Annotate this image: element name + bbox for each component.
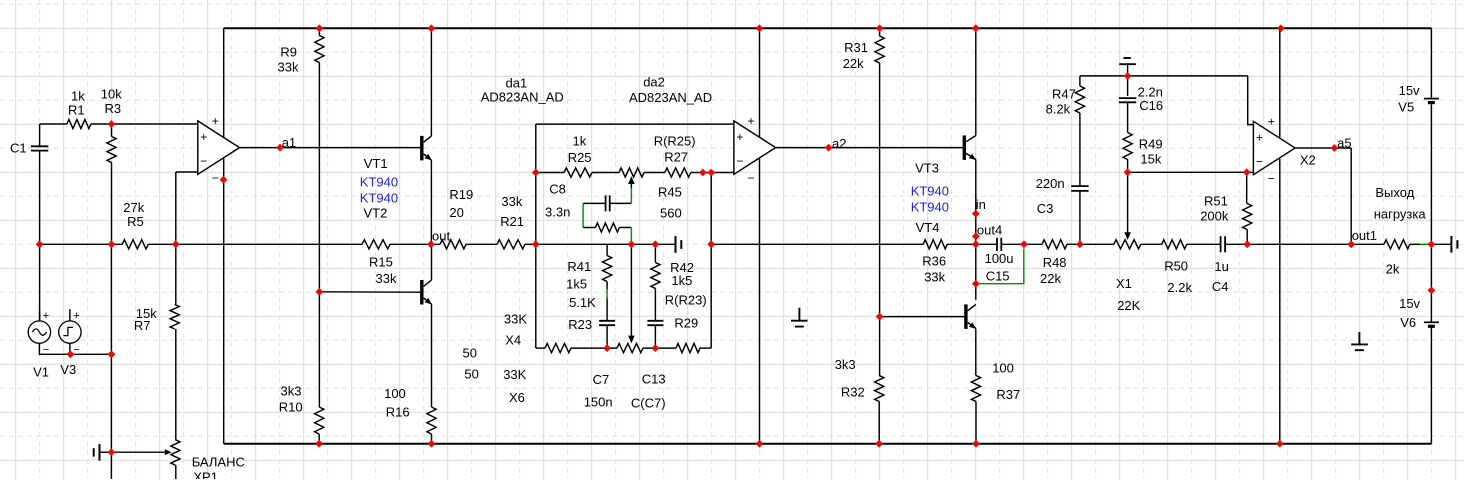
wire C15 node to R48	[1024, 243, 1042, 245]
junction top bus / DA2 supply	[756, 24, 764, 32]
wire R48 to R47 column node	[1067, 243, 1080, 245]
wire V5 to mid bus node	[1430, 104, 1432, 244]
svg-text:15k: 15k	[1140, 152, 1161, 167]
svg-text:R16: R16	[386, 404, 410, 419]
junction bottom bus / R37	[972, 440, 980, 448]
wire mid node to R42	[654, 244, 656, 262]
connector pin bottom-left (tall bar)	[99, 444, 101, 461]
svg-text:нагрузка: нагрузка	[1374, 206, 1427, 221]
wire sources rail down off page	[110, 354, 112, 479]
source V3 step symbol	[63, 327, 73, 335]
node out1	[1347, 240, 1355, 248]
svg-text:X4: X4	[505, 332, 521, 347]
svg-text:R23: R23	[568, 317, 592, 332]
wire mid bus left segment	[40, 243, 123, 245]
wire node to potentiometer X1	[1080, 243, 1114, 245]
resistor R25 1k horizontal	[564, 168, 592, 177]
wire node to X2 - input	[1128, 171, 1247, 173]
battery V6 15v long plate	[1424, 321, 1439, 323]
svg-text:C4: C4	[1212, 279, 1229, 294]
resistor R49 15k vertical	[1123, 133, 1132, 160]
wire X2 - input down to R51	[1246, 172, 1248, 203]
resistor R9 33k vertical	[315, 36, 324, 63]
wire R32 bottom to bus	[878, 402, 880, 444]
wire mid line tap to R41	[606, 244, 608, 255]
capacitor C15 100u	[997, 238, 1001, 251]
svg-text:+: +	[200, 130, 207, 144]
wire wiper stem black part	[630, 180, 632, 188]
svg-text:R41: R41	[567, 259, 591, 274]
node a2	[825, 144, 833, 152]
wire R3 node down to sources bottom rail	[110, 244, 112, 354]
junction mid bus / R51	[1243, 240, 1251, 248]
transistor VT2 emitter lead	[424, 298, 432, 304]
svg-text:R31: R31	[844, 40, 868, 55]
wire top positive supply bus	[224, 27, 1432, 29]
svg-text:X2: X2	[1300, 153, 1316, 168]
svg-text:R15: R15	[369, 255, 393, 270]
junction VT2 base / R9 R10	[316, 288, 324, 296]
svg-text:R7: R7	[134, 318, 151, 333]
svg-text:R1: R1	[68, 103, 85, 118]
wire R19 to R21	[466, 243, 497, 245]
resistor R7 15k vertical	[170, 305, 179, 329]
svg-text:KT940: KT940	[911, 200, 949, 215]
wire mid bus to R36	[711, 243, 923, 245]
node in	[972, 210, 980, 218]
svg-text:R32: R32	[841, 385, 865, 400]
wire R10 bottom lead to bus	[318, 434, 320, 444]
node out4	[972, 232, 980, 240]
capacitor C7 150n	[599, 321, 615, 325]
junction top bus / VT3 collector	[972, 24, 980, 32]
ground symbol (floating, right)	[1351, 332, 1368, 350]
connector pin mid (tall bar)	[675, 236, 677, 253]
node a1	[276, 144, 284, 152]
transistor VT4 emitter arrow	[969, 322, 976, 329]
junction mid bus / V5 V6	[1428, 240, 1436, 248]
potentiometer (R27 top) body	[619, 168, 644, 177]
svg-text:15v: 15v	[1399, 83, 1420, 98]
svg-text:22k: 22k	[843, 56, 864, 71]
svg-text:−: −	[1268, 172, 1275, 186]
svg-text:R50: R50	[1164, 258, 1188, 273]
transistor VT1 (NPN) base bar	[420, 136, 423, 161]
svg-text:R49: R49	[1139, 137, 1163, 152]
connector pin output (short bar)	[1456, 240, 1458, 248]
junction mid bus / C1	[36, 240, 44, 248]
source V3 pulse generator circle	[59, 321, 81, 343]
svg-text:R37: R37	[996, 387, 1020, 402]
svg-text:1k5: 1k5	[566, 277, 587, 292]
wire R7 bottom to potentiometer XR1	[175, 329, 177, 440]
transistor VT4 emitter lead	[968, 322, 976, 328]
wire feedback network left edge vertical	[535, 124, 537, 348]
wire R31 bottom to VT4 base node	[879, 63, 881, 317]
wire R1 right through node to op-amp DA1 + input	[91, 123, 198, 125]
wire R50 to C4	[1187, 243, 1221, 245]
transistor VT3 emitter lead	[966, 153, 976, 159]
svg-text:−: −	[736, 154, 743, 168]
svg-text:2.2k: 2.2k	[1167, 280, 1192, 295]
svg-text:out1: out1	[1352, 228, 1377, 243]
wire series resistor right lead	[619, 227, 631, 229]
wire green C8 to series resistor	[582, 203, 584, 227]
resistor R10 3k3 vertical	[315, 407, 324, 434]
connector pin top (short bar)	[1123, 57, 1131, 59]
junction top bus / VT1 collector	[428, 24, 436, 32]
svg-text:R29: R29	[674, 316, 698, 331]
svg-text:a2: a2	[832, 136, 846, 151]
svg-text:VT1: VT1	[364, 156, 388, 171]
svg-text:33k: 33k	[501, 194, 522, 209]
svg-text:R47: R47	[1052, 86, 1076, 101]
connector pin bottom-left (short bar)	[93, 448, 95, 456]
resistor R1 1k horizontal	[67, 119, 91, 128]
capacitor C1	[31, 146, 48, 150]
potentiometer XR1 wiper arrow	[111, 451, 166, 453]
svg-text:−: −	[1256, 155, 1263, 169]
wire X2 positive supply from top bus	[1279, 28, 1281, 138]
wire R51 bottom to mid bus node	[1246, 230, 1248, 245]
svg-text:R19: R19	[449, 187, 473, 202]
wire R21 to feedback network left edge	[525, 243, 536, 245]
resistor R50 2.2k horizontal	[1162, 240, 1187, 249]
wire green segment R41 column	[606, 289, 608, 299]
svg-text:V1: V1	[33, 364, 49, 379]
svg-text:R27: R27	[664, 150, 688, 165]
svg-text:R9: R9	[280, 45, 297, 60]
svg-text:220n: 220n	[1036, 176, 1065, 191]
junction X2 inverting input / R51	[1243, 168, 1251, 176]
transistor VT3 emitter arrow	[969, 154, 977, 160]
capacitor C8 3.3n	[606, 195, 610, 211]
svg-text:33K: 33K	[503, 367, 526, 382]
svg-text:+: +	[1256, 131, 1263, 145]
junction mid bus / R3 column	[108, 240, 116, 248]
wire R41 bottom lead	[606, 282, 608, 290]
wire R37 bottom to bus	[975, 402, 977, 444]
svg-text:V6: V6	[1400, 315, 1416, 330]
svg-text:+: +	[748, 114, 755, 128]
svg-text:R36: R36	[922, 254, 946, 269]
junction network top-right	[707, 169, 715, 177]
svg-text:R45: R45	[658, 185, 682, 200]
svg-text:C1: C1	[10, 141, 27, 156]
op-amp X2 (output stage) triangle	[1253, 121, 1295, 174]
wire C8 left lead	[583, 202, 606, 204]
svg-text:50: 50	[464, 367, 478, 382]
wire X2 negative supply down to bottom bus	[1279, 159, 1281, 444]
ground symbol (floating, mid)	[791, 308, 808, 327]
svg-text:1u: 1u	[1214, 259, 1228, 274]
svg-text:33k: 33k	[278, 60, 299, 75]
svg-text:X1: X1	[1116, 276, 1132, 291]
svg-text:3k3: 3k3	[281, 384, 302, 399]
svg-text:2k: 2k	[1386, 261, 1400, 276]
svg-text:in: in	[976, 197, 986, 212]
junction network bottom / C13	[652, 344, 660, 352]
wire top bus to VT1 collector	[430, 28, 432, 136]
svg-text:33k: 33k	[924, 269, 945, 284]
svg-text:15v: 15v	[1399, 296, 1420, 311]
svg-text:a5: a5	[1337, 136, 1351, 151]
wire R42 bottom to C13	[654, 289, 656, 321]
wire R36 to VT column node	[947, 243, 976, 245]
wire top bus to VT3 collector	[975, 28, 977, 135]
wire network top line to R25	[536, 172, 564, 174]
svg-text:da1: da1	[506, 75, 528, 90]
svg-text:da2: da2	[643, 75, 665, 90]
wire R31 top lead	[879, 28, 881, 36]
wire op-amp DA1 - input horizontal	[176, 171, 198, 173]
wire a5 down to node out1	[1350, 148, 1352, 244]
wire node to R7 top	[175, 244, 177, 304]
junction bottom bus / R16	[428, 440, 436, 448]
junction network mid center	[628, 240, 636, 248]
wire VT4 emitter to R37	[975, 329, 977, 376]
junction top bus / X2 supply	[1277, 24, 1285, 32]
svg-text:−: −	[748, 171, 755, 185]
resistor R41 1k5 vertical	[602, 256, 611, 282]
op-amp DA1 (first stage) triangle	[198, 121, 240, 174]
svg-text:R51: R51	[1204, 194, 1228, 209]
svg-text:22k: 22k	[1040, 271, 1061, 286]
connector pin top (wide bar)	[1119, 63, 1136, 65]
svg-text:50: 50	[463, 345, 477, 360]
svg-text:Выход: Выход	[1375, 185, 1414, 200]
svg-text:200k: 200k	[1200, 209, 1229, 224]
svg-text:10k: 10k	[101, 87, 122, 102]
wire DA2 negative supply down to bottom bus	[759, 158, 761, 444]
svg-text:R(R23): R(R23)	[665, 293, 707, 308]
wire green down to mid node	[630, 228, 632, 245]
transistor VT1 emitter lead	[424, 154, 432, 160]
wire network bottom line left lead	[536, 347, 545, 349]
svg-text:R3: R3	[105, 101, 122, 116]
svg-text:БАЛАНС: БАЛАНС	[192, 455, 245, 470]
wire C1 bottom through mid bus to V1 top	[39, 151, 41, 321]
svg-text:C7: C7	[593, 372, 610, 387]
junction R27 output	[699, 169, 707, 177]
svg-text:V3: V3	[60, 362, 76, 377]
wire bottom negative supply bus	[224, 443, 1432, 445]
svg-text:+: +	[736, 130, 743, 144]
svg-text:R25: R25	[568, 150, 592, 165]
junction V3 bottom	[67, 350, 75, 358]
wire DA1 negative supply down to bottom bus	[223, 158, 225, 444]
svg-text:C15: C15	[986, 268, 1010, 283]
wire R47 top lead	[1079, 76, 1081, 86]
svg-text:AD823AN_AD: AD823AN_AD	[629, 90, 712, 105]
node out	[427, 240, 435, 248]
wire V3 top stub	[69, 309, 71, 321]
junction C15 / R48	[1020, 240, 1028, 248]
svg-text:−: −	[200, 154, 207, 168]
wire VT2 emitter down to R16	[431, 304, 433, 407]
svg-text:R10: R10	[279, 399, 303, 414]
wire DA2 output node a2 to VT3 base	[776, 147, 963, 149]
wire top bus to battery V5	[1430, 28, 1432, 98]
svg-text:C3: C3	[1037, 201, 1054, 216]
resistor R16 100 vertical	[427, 407, 436, 434]
capacitor C3 220n	[1071, 186, 1088, 191]
svg-text:20: 20	[449, 205, 463, 220]
resistor R36 33k horizontal	[923, 240, 947, 249]
wire R49 bottom to node	[1127, 160, 1129, 173]
wire V6 to bottom bus corner	[1430, 328, 1432, 444]
wire C16 to R49	[1127, 102, 1129, 132]
wire R25 to potentiometer R27	[592, 172, 619, 174]
svg-text:+: +	[212, 114, 219, 128]
svg-text:out: out	[432, 228, 450, 243]
node a5	[1331, 144, 1339, 152]
wire R3 top lead	[111, 124, 113, 137]
capacitor C4 1u	[1221, 236, 1226, 252]
svg-text:VT2: VT2	[364, 205, 388, 220]
junction network top-left	[532, 169, 540, 177]
wire VT1 emitter to node out	[430, 160, 432, 244]
wire green highlighted segment at V5 node	[1420, 243, 1428, 245]
capacitor C13 C(C7)	[647, 321, 663, 325]
potentiometer X1 wiper arrow (stem down)	[1127, 172, 1129, 234]
svg-text:+: +	[43, 310, 49, 322]
transistor VT2 (NPN) base bar	[420, 280, 423, 305]
source V1 sine generator circle	[28, 321, 50, 343]
battery V5 15v long plate	[1424, 98, 1439, 100]
wire top feedback line	[1080, 75, 1248, 77]
wire mid bus from R5 to R15	[148, 243, 362, 245]
capacitor C16 2.2n	[1119, 98, 1136, 102]
resistor R29 horizontal	[676, 344, 700, 353]
wire R16 bottom lead to bus	[431, 434, 433, 444]
resistor R42 1k5 vertical	[651, 263, 660, 289]
wire VT4 base from R31/R32 node	[880, 316, 965, 318]
svg-text:100: 100	[384, 386, 406, 401]
junction green bypass / VT column	[972, 280, 980, 288]
junction XR1 wiper / connector	[108, 448, 116, 456]
wire C13 bottom to network bottom line	[654, 325, 656, 348]
wire R9 top lead	[318, 28, 320, 35]
resistor 2k load horizontal	[1384, 240, 1410, 249]
junction top feedback line / connector	[1124, 72, 1132, 80]
wire X1 to R50	[1141, 243, 1162, 245]
svg-text:33k: 33k	[376, 271, 397, 286]
resistor R37 100 vertical	[971, 376, 980, 402]
junction bottom bus / DA2 supply	[756, 440, 764, 448]
wire to op-amp DA2 + input	[536, 123, 734, 125]
junction DA1 negative supply pin	[220, 176, 228, 184]
svg-text:R(R25): R(R25)	[654, 134, 696, 149]
resistor R51 200k vertical	[1243, 204, 1252, 230]
svg-text:1k: 1k	[71, 89, 85, 104]
wire XR1 bottom off page	[175, 465, 177, 479]
wire network right edge vertical	[710, 173, 712, 349]
svg-text:VT4: VT4	[916, 220, 940, 235]
potentiometer top wiper arrow	[628, 176, 635, 184]
svg-text:8.2k: 8.2k	[1046, 102, 1071, 117]
junction VT4 base	[876, 313, 884, 321]
resistor R32 3k3 vertical	[875, 376, 884, 402]
svg-text:XP1: XP1	[193, 470, 218, 480]
svg-text:1k5: 1k5	[671, 273, 692, 288]
potentiometer X6 wiper arrow (long stem down)	[630, 244, 632, 337]
resistor R19 20 horizontal	[440, 240, 466, 249]
svg-text:R48: R48	[1043, 255, 1067, 270]
transistor VT1 emitter arrow	[425, 154, 432, 161]
wire potentiometer to R27	[644, 172, 665, 174]
svg-text:V5: V5	[1398, 100, 1414, 115]
junction top bus / R9	[316, 24, 324, 32]
wire R15 to node out and R19 left	[390, 243, 440, 245]
wire wiper stem green highlighted	[630, 188, 632, 203]
wire C3 bottom to mid bus node	[1079, 191, 1081, 244]
wire C15 right lead	[1001, 243, 1024, 245]
wire C7 bottom to network bottom line	[606, 325, 608, 348]
wire to series resistor	[583, 227, 595, 229]
transistor VT3 (NPN) base bar	[963, 135, 966, 160]
wire C1 top to R1 left	[40, 123, 67, 125]
svg-text:100u: 100u	[985, 251, 1014, 266]
transistor VT1 collector lead	[424, 136, 432, 142]
resistor (C8 series) horizontal	[595, 223, 619, 232]
junction mid bus / R47 column	[1076, 240, 1084, 248]
svg-text:AD823AN_AD: AD823AN_AD	[481, 90, 564, 105]
wire VT3 emitter down through in/out4 nodes to VT4 collector	[975, 160, 977, 300]
junction network bottom / C7	[603, 344, 611, 352]
svg-text:560: 560	[660, 206, 682, 221]
resistor R15 33k horizontal	[362, 240, 390, 249]
svg-text:22K: 22K	[1117, 298, 1140, 313]
svg-text:X6: X6	[509, 390, 525, 405]
resistor R47 8.2k vertical	[1075, 86, 1084, 113]
wire R3 bottom to mid bus	[111, 163, 113, 245]
transistor VT4 (NPN) base bar	[964, 304, 967, 329]
resistor R3 10k vertical	[107, 137, 116, 163]
resistor R21 33k horizontal	[497, 240, 525, 249]
svg-text:C16: C16	[1139, 98, 1163, 113]
wire VT2 base from R9/R10 node	[319, 291, 420, 293]
wire node to output connector pin	[1428, 243, 1452, 245]
battery V6 15v short plate	[1428, 325, 1435, 328]
junction bottom bus / R32	[875, 440, 883, 448]
wire DA1 - input down to mid bus node	[175, 172, 177, 244]
wire 2k to green segment	[1410, 243, 1420, 245]
resistor R5 27k horizontal	[122, 240, 148, 249]
potentiometer XR1 body	[171, 440, 180, 465]
wire V3 bottom to rail	[69, 343, 71, 354]
wire into X2 - input	[1247, 171, 1254, 173]
junction V6 top lead	[1428, 286, 1436, 294]
wire R27 to DA2 - input	[691, 172, 734, 174]
wire green C15 bypass	[979, 249, 1023, 284]
junction R49 / X1 wiper	[1124, 168, 1132, 176]
wire R23 to potentiometer X6	[571, 347, 617, 349]
battery V5 15v short plate	[1428, 101, 1435, 104]
wire network middle line	[536, 243, 656, 245]
junction sources rail	[108, 350, 116, 358]
wire R29 to network right edge	[700, 347, 711, 349]
svg-text:3.3n: 3.3n	[545, 205, 570, 220]
wire R9 bottom to VT2 base node	[318, 63, 320, 292]
svg-text:1k: 1k	[573, 134, 587, 149]
junction bottom bus / R10	[315, 440, 323, 448]
wire X6 to R29	[643, 347, 676, 349]
svg-text:+: +	[73, 310, 79, 322]
wire connector stem through node to C16	[1127, 64, 1129, 96]
svg-text:R5: R5	[127, 214, 144, 229]
wire out1 to 2k load resistor	[1351, 243, 1384, 245]
